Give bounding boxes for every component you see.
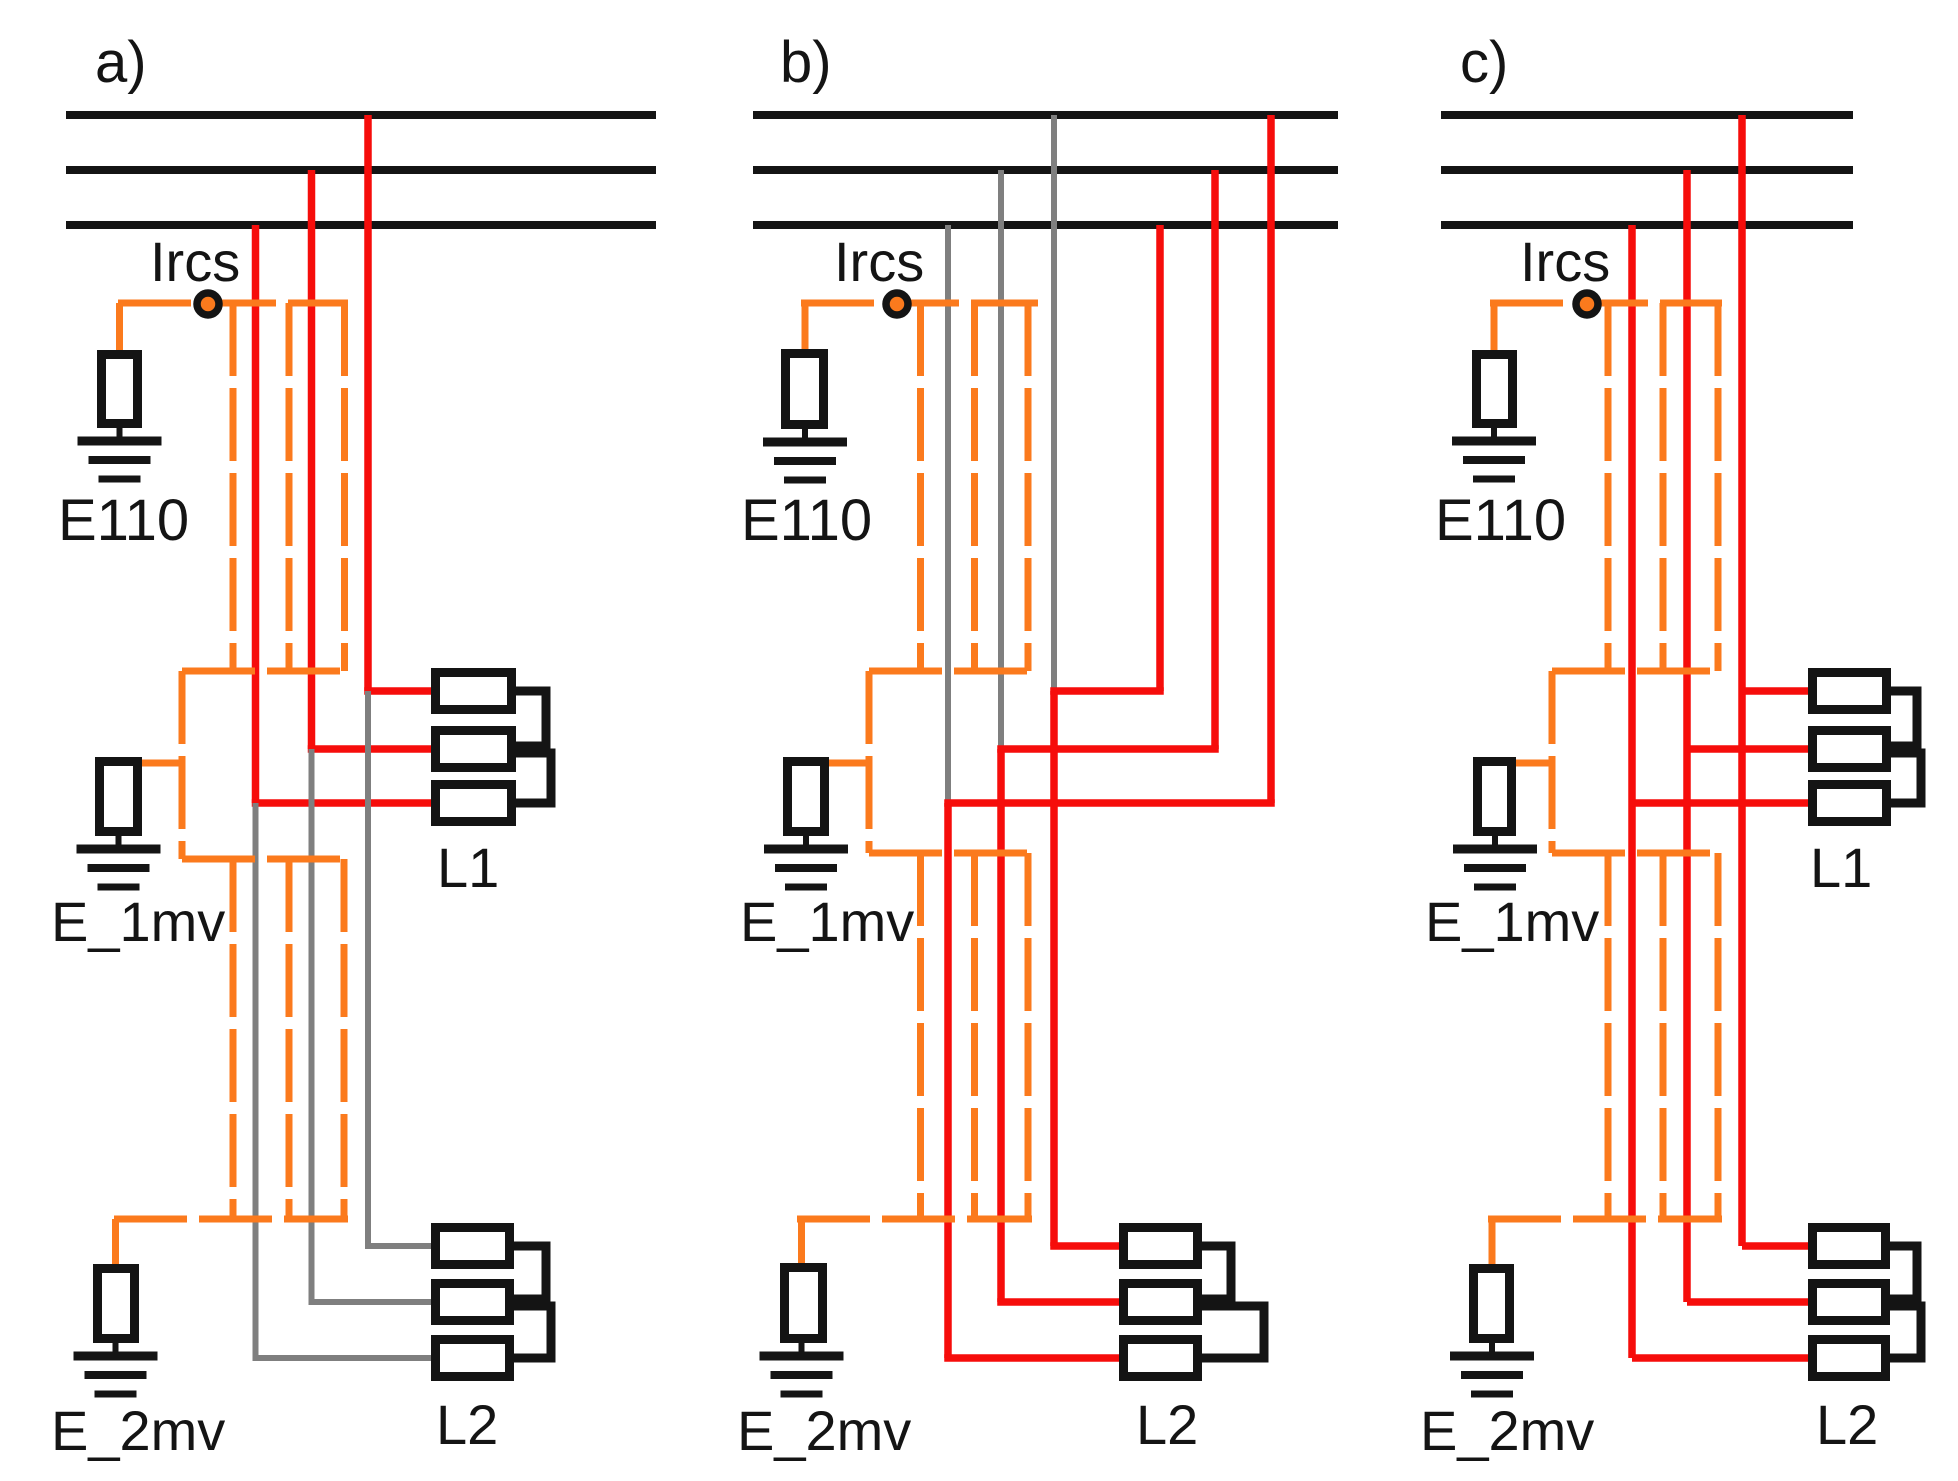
wire orange junction left vertical (panel c)	[1549, 671, 1556, 853]
panel a busbar 1	[66, 111, 656, 119]
L2 connector bracket lower	[1202, 1306, 1264, 1358]
wire orange E_1mv stub (panel c)	[1513, 760, 1552, 767]
wire orange E_2mv drop (panel b)	[798, 1219, 805, 1265]
source E110 symbol	[102, 355, 138, 424]
svg-text:E_2mv: E_2mv	[737, 1399, 911, 1462]
wire orange signal vertical lower c2	[1660, 853, 1667, 1219]
node Ircs (panel c)	[1576, 293, 1598, 315]
wire orange junction top horizontal (panel a)	[182, 668, 348, 675]
node Ircs (panel b)	[886, 293, 908, 315]
wire orange E_2mv drop (panel c)	[1489, 1219, 1496, 1266]
wire orange bottom junction horizontal (panel b)	[797, 1216, 1032, 1223]
ground of E_2mv	[74, 1352, 158, 1361]
L1 connector bracket upper	[1891, 691, 1917, 746]
wire orange E110 drop (panel b)	[802, 303, 809, 351]
wire gray disconnected stub b1	[1051, 115, 1057, 691]
wire orange Ircs bus (panel a)	[118, 300, 348, 307]
ground of E110	[1452, 437, 1536, 446]
svg-text:E_1mv: E_1mv	[51, 890, 225, 953]
wire red new cable b2 busbar to junction	[1211, 170, 1219, 749]
wire red feeder c2 busbar to L1 and L2	[1683, 170, 1691, 1302]
L2 connector bracket upper	[1202, 1246, 1231, 1299]
wire orange bottom junction horizontal (panel c)	[1488, 1216, 1722, 1223]
L2 connector bracket lower	[1890, 1306, 1921, 1358]
load L2 element 3	[1124, 1340, 1198, 1377]
wire red feeder c1 busbar to L1 and L2	[1738, 115, 1746, 1246]
wire orange signal vertical lower b3	[1025, 853, 1032, 1219]
svg-text:E110: E110	[1435, 488, 1566, 553]
wire orange signal vertical upper a1	[230, 303, 237, 671]
ground of E110	[763, 438, 847, 447]
wire orange junction bottom horizontal (panel c)	[1552, 850, 1722, 857]
wire orange junction bottom horizontal (panel b)	[869, 850, 1032, 857]
source E_1mv symbol	[1478, 762, 1512, 832]
wire orange signal vertical upper a2	[286, 303, 293, 671]
load L2 element 2	[1813, 1284, 1886, 1321]
svg-text:L2: L2	[1816, 1393, 1878, 1456]
svg-text:L1: L1	[437, 836, 499, 899]
source E_1mv symbol	[788, 762, 825, 832]
L1 connector bracket lower	[1891, 753, 1921, 803]
wire orange junction top horizontal (panel c)	[1552, 668, 1722, 675]
ground of E_1mv	[77, 845, 161, 854]
ground of E_2mv	[760, 1352, 844, 1361]
source E110 symbol	[786, 354, 824, 425]
wire orange bottom junction horizontal (panel a)	[114, 1216, 348, 1223]
svg-text:E110: E110	[58, 488, 189, 553]
svg-text:a): a)	[95, 30, 147, 95]
wire orange signal vertical upper b1	[917, 303, 924, 671]
wire orange signal vertical lower b1	[917, 853, 924, 1219]
source E_1mv symbol	[100, 762, 138, 832]
E_2mv ground stem	[113, 1341, 119, 1356]
load L2 element 3	[1813, 1340, 1886, 1377]
wire orange Ircs bus (panel b)	[801, 300, 1038, 307]
svg-text:c): c)	[1460, 30, 1508, 95]
load L2 element 3	[436, 1340, 510, 1377]
svg-text:Ircs: Ircs	[834, 230, 924, 293]
wire red cable continuation b1 to L2	[1050, 691, 1058, 1246]
wire orange junction top horizontal (panel b)	[869, 668, 1032, 675]
wire gray disconnected cable a2 to L2	[309, 749, 315, 1302]
wire orange signal vertical lower a3	[341, 859, 348, 1219]
panel b busbar 3	[753, 221, 1338, 229]
wire orange signal vertical lower c1	[1605, 853, 1612, 1219]
wire orange signal vertical lower a1	[230, 859, 237, 1219]
wire orange signal vertical upper c3	[1715, 303, 1722, 671]
wire orange signal vertical upper b3	[1025, 303, 1032, 671]
wire orange E110 drop (panel c)	[1491, 303, 1498, 352]
svg-text:b): b)	[780, 30, 832, 95]
load L2 element 1	[1124, 1228, 1198, 1265]
L2 connector bracket upper	[1890, 1246, 1917, 1299]
wire orange junction left vertical (panel a)	[179, 671, 186, 859]
wire red feeder a1 busbar to L1	[364, 115, 372, 691]
source E_2mv symbol	[1474, 1269, 1510, 1339]
wire gray disconnected stub b3	[945, 225, 951, 803]
load L1 element 1	[1813, 673, 1887, 710]
E_1mv ground stem	[1492, 834, 1498, 849]
load L2 element 2	[436, 1284, 510, 1321]
wire orange signal vertical upper c1	[1605, 303, 1612, 671]
wire orange signal vertical upper a3	[341, 303, 348, 671]
wire gray disconnected cable a1 to L2	[365, 691, 371, 1246]
svg-text:L2: L2	[436, 1393, 498, 1456]
L2 connector bracket upper	[514, 1246, 546, 1299]
wire orange Ircs bus (panel c)	[1490, 300, 1722, 307]
wire red cable continuation b2 to L2	[997, 749, 1005, 1302]
panel b busbar 1	[753, 111, 1338, 119]
wire red feeder c3 busbar to L1 and L2	[1628, 225, 1636, 1358]
panel b busbar 2	[753, 166, 1338, 174]
wire orange E_2mv drop (panel a)	[112, 1219, 119, 1266]
E110 ground stem	[117, 426, 123, 441]
load L1 element 2	[1813, 731, 1887, 768]
wire orange signal vertical upper b2	[971, 303, 978, 671]
L1 connector bracket upper	[516, 691, 546, 746]
wire gray disconnected cable a3 to L2	[253, 803, 259, 1358]
L2 connector bracket lower	[514, 1306, 551, 1358]
svg-text:E_2mv: E_2mv	[51, 1399, 225, 1462]
E_1mv ground stem	[116, 834, 122, 849]
wire red feeder a2 busbar to L1	[308, 170, 316, 749]
wire gray disconnected stub b2	[998, 170, 1004, 749]
ground of E_1mv	[1453, 845, 1537, 854]
wire orange E110 drop (panel a)	[116, 303, 123, 352]
wire orange junction bottom horizontal (panel a)	[182, 856, 348, 863]
wire red new cable b1 busbar to junction	[1156, 225, 1164, 691]
source E_2mv symbol	[785, 1268, 823, 1339]
load L2 element 2	[1124, 1284, 1198, 1321]
wire orange signal vertical lower b2	[971, 853, 978, 1219]
E_2mv ground stem	[799, 1341, 805, 1356]
panel c busbar 1	[1441, 111, 1853, 119]
svg-text:L2: L2	[1136, 1393, 1198, 1456]
source E_2mv symbol	[98, 1269, 135, 1339]
load L1 element 1	[436, 673, 512, 710]
load L1 element 2	[436, 731, 512, 768]
svg-text:Ircs: Ircs	[1520, 230, 1610, 293]
source E110 symbol	[1477, 355, 1513, 424]
E_2mv ground stem	[1489, 1341, 1495, 1356]
wire red new cable b3 busbar to junction	[1267, 115, 1275, 803]
panel c busbar 2	[1441, 166, 1853, 174]
wire red cable continuation b3 to L2	[944, 803, 952, 1358]
ground of E_2mv	[1450, 1352, 1534, 1361]
E_1mv ground stem	[803, 834, 809, 849]
svg-text:E_1mv: E_1mv	[740, 890, 914, 953]
panel a busbar 3	[66, 221, 656, 229]
svg-text:E_1mv: E_1mv	[1425, 890, 1599, 953]
wire red feeder a3 busbar to L1	[252, 225, 260, 803]
E110 ground stem	[1491, 426, 1497, 441]
wire orange E_1mv stub (panel a)	[138, 760, 182, 767]
node Ircs (panel a)	[197, 293, 219, 315]
E110 ground stem	[802, 427, 808, 442]
svg-text:E_2mv: E_2mv	[1420, 1399, 1594, 1462]
svg-text:Ircs: Ircs	[150, 230, 240, 293]
wire orange signal vertical lower a2	[286, 859, 293, 1219]
panel c busbar 3	[1441, 221, 1853, 229]
ground of E_1mv	[764, 845, 848, 854]
wire orange signal vertical upper c2	[1660, 303, 1667, 671]
svg-text:L1: L1	[1810, 836, 1872, 899]
svg-text:E110: E110	[741, 488, 872, 553]
load L1 element 3	[1813, 785, 1887, 822]
panel a busbar 2	[66, 166, 656, 174]
load L2 element 1	[1813, 1228, 1886, 1265]
load L2 element 1	[436, 1228, 510, 1265]
wire orange junction left vertical (panel b)	[866, 671, 873, 853]
load L1 element 3	[436, 785, 512, 822]
wire orange signal vertical lower c3	[1715, 853, 1722, 1219]
wire orange E_1mv stub (panel b)	[825, 760, 869, 767]
L1 connector bracket lower	[516, 753, 551, 803]
ground of E110	[78, 437, 162, 446]
